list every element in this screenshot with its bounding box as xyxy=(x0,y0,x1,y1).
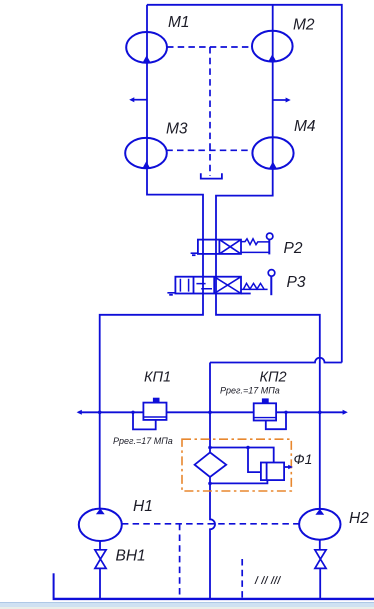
window scrollbar strip bottom xyxy=(0,602,374,608)
motor M4 xyxy=(252,137,293,169)
svg-text:Н2: Н2 xyxy=(349,510,369,527)
svg-text:М2: М2 xyxy=(293,17,315,34)
wire filter bypass top xyxy=(210,448,274,463)
svg-text:КП2: КП2 xyxy=(260,370,287,386)
wire main pump header right segment xyxy=(276,411,343,413)
motor M3 xyxy=(125,138,167,168)
wire main pump header left segment xyxy=(79,411,144,413)
node arrow left end of pump header xyxy=(77,410,82,415)
wire return line y=362 with hop over x=320 xyxy=(210,358,342,363)
relief valve KP1 xyxy=(131,398,166,430)
svg-text:М3: М3 xyxy=(166,121,188,138)
wire M1-M3 line and left route to pump H1 xyxy=(100,5,203,509)
svg-text:КП1: КП1 xyxy=(144,370,171,386)
node arrow stub right of M2-M4 line xyxy=(273,98,291,103)
svg-text:Р2: Р2 xyxy=(284,240,303,257)
node arrow stub left of M1-M3 line xyxy=(129,97,147,102)
wire dashed drain M1-M2 xyxy=(167,46,252,48)
pump H1 xyxy=(79,508,122,541)
wire filter bypass inner loop xyxy=(248,448,261,473)
valve P3 xyxy=(167,270,274,296)
svg-text:М4: М4 xyxy=(294,118,316,135)
pump H2 xyxy=(299,509,340,540)
node arrow right end of pump header xyxy=(343,410,348,415)
wire dashed drain stub x=242 xyxy=(241,559,243,598)
svg-text:Pрег.=17 МПа: Pрег.=17 МПа xyxy=(220,386,280,396)
relief valve KP2 xyxy=(254,398,288,429)
shut-off valve below H2 xyxy=(315,550,326,569)
wire pump H1 to valve BH1 and tank xyxy=(99,541,101,598)
svg-text:Р3: Р3 xyxy=(287,274,306,291)
shut-off valve BH1 xyxy=(95,550,106,569)
wire dashed pump drain H1-H2 xyxy=(122,523,299,525)
filter enclosure (orange dash-dot) xyxy=(182,439,291,491)
svg-text:Pрег.=17 МПа: Pрег.=17 МПа xyxy=(113,436,173,446)
wire top supply line with right drop xyxy=(147,5,342,363)
svg-text:ВН1: ВН1 xyxy=(116,548,146,565)
svg-text:I II III: I II III xyxy=(253,574,282,587)
wire filter bypass bottom return xyxy=(210,480,267,483)
wire M2-M4 line and right route to pump H2 xyxy=(216,5,320,510)
svg-text:Н1: Н1 xyxy=(133,498,153,515)
filter F1 diamond xyxy=(195,452,227,477)
node junction dots xyxy=(98,411,322,486)
wire main pump header middle segment xyxy=(167,411,254,413)
wire filter drop x=210 with hop over dashed drain xyxy=(210,363,215,599)
tank (drain) symbol top xyxy=(201,173,222,178)
wire dashed drain M3-M4 xyxy=(166,149,252,151)
wire pump H2 to valve and tank xyxy=(319,540,321,599)
bypass valve of filter xyxy=(261,463,293,481)
svg-text:Ф1: Ф1 xyxy=(294,451,313,467)
wire dashed drain center drop to tank symbol xyxy=(209,47,211,176)
motor M1 xyxy=(126,32,167,63)
wire dashed drain drop x=179 xyxy=(179,524,181,599)
valve P2 xyxy=(191,233,273,255)
tank reservoir bottom xyxy=(53,573,55,598)
svg-text:М1: М1 xyxy=(168,14,190,31)
motor M2 xyxy=(252,31,293,62)
